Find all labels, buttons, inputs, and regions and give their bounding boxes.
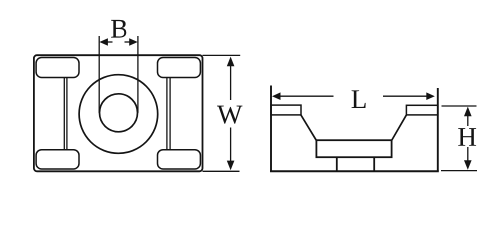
- side view: pedestal left line: [336, 157, 338, 171]
- side view: right edge: [437, 88, 439, 171]
- side view: bottom edge: [270, 170, 439, 172]
- dimension H: bottom extension line: [441, 170, 477, 172]
- top view: bottom-right corner block: [158, 150, 201, 169]
- top view: right strap-slot wall lines: [166, 78, 168, 151]
- side view: right flange: [406, 105, 437, 115]
- side view: right slant: [392, 115, 407, 141]
- side view: pedestal right line: [373, 157, 375, 171]
- dimension H: top arrow: [464, 107, 472, 117]
- dimension L: left arrow: [272, 92, 281, 100]
- label L: [352, 90, 366, 108]
- side view: left slant: [301, 115, 317, 141]
- top view: inner circle (screw hole): [100, 94, 138, 132]
- dimension B: right arrow: [129, 38, 138, 46]
- label H: [458, 128, 476, 146]
- dimension H: top extension line: [442, 105, 477, 107]
- dimension W: top arrow: [227, 57, 235, 67]
- label B: [111, 20, 126, 38]
- dimension W: bottom arrow: [227, 161, 235, 171]
- dimension B: left arrow: [99, 38, 108, 46]
- dimension W: top extension line: [203, 54, 241, 56]
- label W: [217, 106, 242, 124]
- side view: left edge: [270, 86, 272, 172]
- dimension W: bottom extension line: [203, 170, 240, 172]
- dimension L: right arrow: [426, 92, 435, 100]
- top view: outer body rectangle: [34, 55, 203, 171]
- top view: left strap-slot wall lines: [63, 78, 65, 151]
- top view: bottom-left corner block: [36, 150, 79, 169]
- top view: top-left corner block: [36, 58, 79, 78]
- side view: central saddle rectangle: [316, 140, 391, 157]
- top view: outer circle (boss): [79, 75, 158, 154]
- dimension H: bottom arrow: [464, 160, 472, 170]
- dimension B: left extension line: [98, 36, 100, 113]
- top view: top-right corner block: [158, 58, 201, 78]
- side view: left flange: [271, 105, 301, 115]
- dimension B: right extension line: [137, 36, 139, 113]
